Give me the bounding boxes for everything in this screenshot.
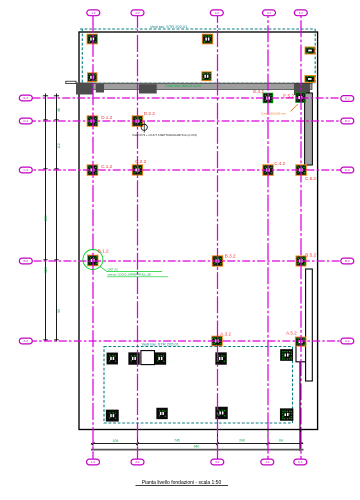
- svg-text:B.2: B.2: [24, 259, 29, 263]
- svg-text:A.3.2: A.3.2: [220, 331, 231, 336]
- svg-text:D.2.2: D.2.2: [144, 111, 155, 116]
- svg-text:A.2: A.2: [24, 339, 29, 343]
- svg-text:745: 745: [174, 438, 180, 442]
- svg-text:D.1.2: D.1.2: [101, 115, 112, 120]
- svg-text:Cors. 200x200 mm: Cors. 200x200 mm: [261, 111, 287, 115]
- svg-text:C.1.2: C.1.2: [101, 164, 112, 169]
- svg-text:E.2: E.2: [345, 97, 350, 101]
- svg-text:940: 940: [194, 445, 200, 449]
- svg-text:C.4.2: C.4.2: [274, 161, 285, 166]
- svg-text:D.2: D.2: [23, 119, 28, 123]
- svg-text:Vedi tav. STR 205.01: Vedi tav. STR 205.01: [142, 342, 180, 347]
- svg-text:2.2: 2.2: [135, 460, 140, 464]
- svg-text:ved tav. COD23_GRRBTTR IDL_SE: ved tav. COD23_GRRBTTR IDL_SE: [108, 273, 152, 277]
- svg-text:C.5.2: C.5.2: [305, 176, 316, 181]
- svg-text:93: 93: [57, 309, 61, 313]
- svg-text:E.4.2: E.4.2: [253, 89, 264, 94]
- svg-text:A.5.2: A.5.2: [286, 330, 297, 335]
- svg-text:E.5.2: E.5.2: [283, 94, 294, 99]
- svg-text:C.2: C.2: [23, 168, 28, 172]
- svg-text:4.2: 4.2: [267, 11, 272, 15]
- svg-text:A.2: A.2: [345, 339, 350, 343]
- svg-text:2.2: 2.2: [135, 11, 140, 15]
- svg-text:Pianta livello fondazioni - sc: Pianta livello fondazioni - scala 1:50: [142, 480, 222, 486]
- svg-text:4.2: 4.2: [265, 460, 270, 464]
- svg-text:46: 46: [57, 108, 61, 112]
- svg-text:525: 525: [44, 267, 48, 273]
- svg-text:DRT A2: DRT A2: [108, 268, 119, 272]
- svg-text:E.2: E.2: [24, 96, 29, 100]
- svg-text:105: 105: [113, 439, 119, 443]
- svg-text:112: 112: [57, 143, 61, 149]
- svg-text:D.2: D.2: [345, 119, 350, 123]
- svg-text:C.2: C.2: [345, 168, 350, 172]
- svg-text:B.3.2: B.3.2: [225, 253, 236, 258]
- svg-text:B.1.2: B.1.2: [98, 248, 109, 253]
- svg-text:64: 64: [279, 438, 283, 442]
- svg-text:5.2: 5.2: [298, 460, 303, 464]
- svg-text:1.2: 1.2: [91, 11, 96, 15]
- svg-text:C.2.2: C.2.2: [135, 159, 146, 164]
- svg-text:B.5.2: B.5.2: [305, 252, 316, 257]
- svg-text:Vedi tav. STR 202.01: Vedi tav. STR 202.01: [150, 24, 188, 29]
- svg-text:3.2: 3.2: [215, 11, 220, 15]
- svg-text:Palo N=73 + n.6 d=7.6 RETTANGO: Palo N=73 + n.6 d=7.6 RETTANGOLARI 5mm (…: [133, 133, 198, 137]
- svg-text:5.2: 5.2: [299, 11, 304, 15]
- svg-text:B.2: B.2: [345, 259, 350, 263]
- svg-text:250: 250: [44, 215, 48, 221]
- svg-text:1.2: 1.2: [91, 460, 96, 464]
- svg-text:3.2: 3.2: [215, 460, 220, 464]
- svg-text:Trave fond. 80x100 sp.20: Trave fond. 80x100 sp.20: [165, 84, 201, 88]
- svg-text:240: 240: [239, 438, 245, 442]
